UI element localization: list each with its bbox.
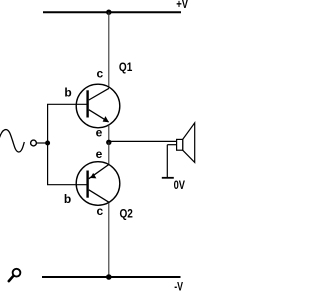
wire: terminal to input node	[36, 142, 47, 144]
wire: Q1 collector to +V rail	[108, 12, 110, 88]
wire: speaker to ground	[166, 145, 168, 178]
input terminal (open circle)	[31, 140, 37, 146]
svg-text:e: e	[96, 125, 103, 139]
wire: input vertical between bases	[47, 104, 49, 184]
wire: output node down to Q2 emitter	[108, 142, 110, 165]
signal source: sine wave	[0, 130, 24, 152]
svg-text:c: c	[97, 204, 104, 218]
node: output junction	[106, 140, 111, 145]
wire: speaker lower terminal	[167, 144, 176, 146]
magnifier icon	[9, 269, 21, 281]
svg-text:b: b	[64, 192, 71, 206]
wire: output node to speaker	[109, 140, 177, 142]
svg-text:+V: +V	[176, 0, 188, 11]
svg-text:-V: -V	[174, 282, 183, 293]
-V power rail	[42, 276, 181, 278]
ground (0V)	[162, 177, 174, 179]
node: bottom rail junction	[106, 274, 112, 280]
wire: Q2 base	[47, 184, 87, 186]
node: input junction	[45, 141, 50, 146]
svg-text:Q2: Q2	[120, 209, 133, 221]
svg-text:e: e	[96, 147, 103, 161]
wire: Q2 collector to -V rail	[108, 203, 110, 277]
node: top rail junction	[106, 10, 111, 15]
+V power rail	[43, 11, 181, 13]
svg-text:b: b	[64, 86, 71, 100]
transistor Q1 (NPN)	[76, 84, 120, 128]
svg-text:0V: 0V	[174, 180, 186, 192]
speaker LS1	[177, 123, 195, 162]
svg-text:Q1: Q1	[119, 62, 133, 74]
wire: Q1 emitter down to output node	[108, 125, 110, 142]
svg-text:c: c	[97, 66, 104, 80]
transistor Q2 (PNP)	[76, 162, 120, 206]
wire: Q1 base	[47, 103, 87, 105]
